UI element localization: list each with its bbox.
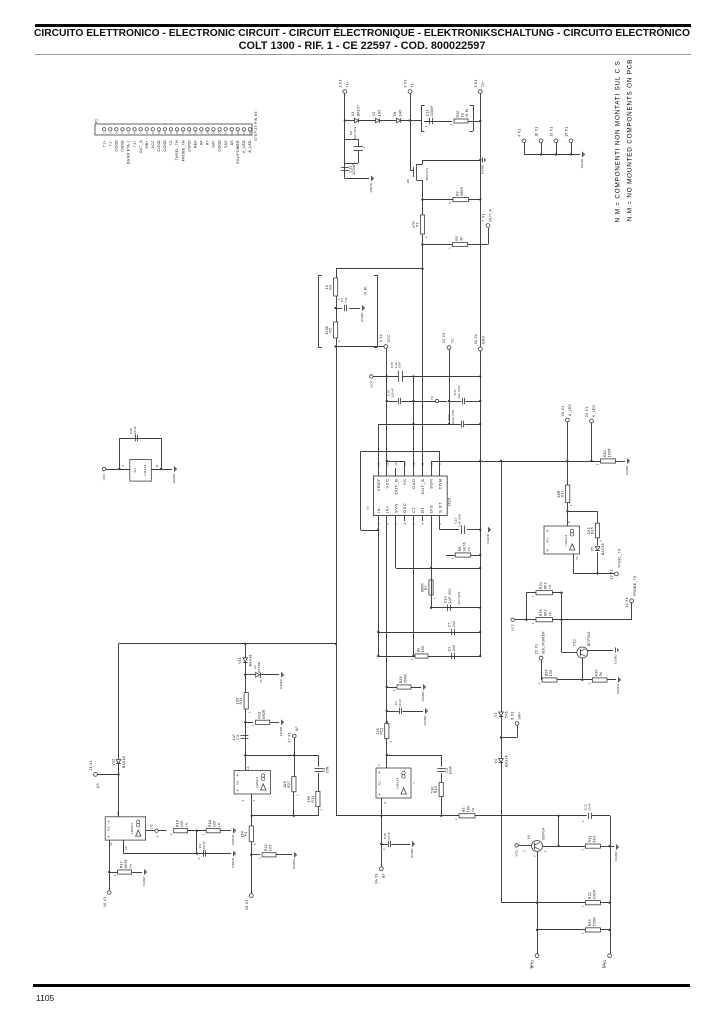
svg-text:BAS16: BAS16 — [601, 543, 605, 555]
svg-text:16K: 16K — [236, 697, 240, 704]
svg-text:V2: V2 — [494, 712, 498, 717]
svg-text:100nF: 100nF — [352, 163, 356, 174]
svg-text:2 X1: 2 X1 — [404, 79, 408, 87]
svg-text:2: 2 — [449, 123, 453, 125]
svg-text:R8: R8 — [458, 546, 462, 551]
svg-text:+: + — [546, 528, 549, 533]
svg-text:CGND: CGND — [115, 140, 119, 152]
svg-text:24: 24 — [243, 131, 246, 135]
svg-text:15: 15 — [386, 462, 389, 466]
svg-text:CGND: CGND — [142, 876, 146, 886]
svg-text:1: 1 — [581, 932, 585, 934]
svg-text:VC: VC — [402, 479, 407, 486]
svg-text:6: 6 — [384, 801, 387, 803]
svg-text:VCC: VCC — [387, 334, 391, 342]
svg-text:CGND: CGND — [279, 679, 283, 689]
svg-text:R12: R12 — [561, 490, 565, 497]
svg-text:PROBE_TH: PROBE_TH — [633, 575, 637, 596]
svg-text:10K: 10K — [180, 820, 184, 827]
svg-text:2: 2 — [383, 848, 386, 850]
svg-text:10K: 10K — [283, 780, 287, 787]
svg-text:2: 2 — [450, 557, 454, 559]
svg-text:11: 11 — [422, 462, 425, 466]
svg-text:P6SVB: P6SVB — [257, 662, 261, 673]
svg-text:3K: 3K — [459, 236, 463, 241]
svg-text:V8: V8 — [406, 179, 410, 183]
svg-text:12: 12 — [110, 842, 113, 846]
svg-text:14: 14 — [182, 131, 185, 135]
svg-text:11: 11 — [164, 131, 167, 134]
svg-text:BCP51A: BCP51A — [587, 631, 591, 646]
svg-text:LM324: LM324 — [396, 777, 400, 788]
svg-text:X1: X1 — [95, 119, 99, 124]
svg-text:2: 2 — [248, 711, 252, 713]
svg-text:1%: 1% — [129, 863, 133, 868]
svg-text:C3: C3 — [236, 735, 240, 740]
svg-text:8K2: 8K2 — [592, 835, 596, 842]
svg-text:V4: V4 — [494, 759, 498, 764]
svg-text:20: 20 — [219, 131, 222, 135]
svg-text:N.M.: N.M. — [465, 108, 469, 117]
svg-text:OUT_B: OUT_B — [393, 479, 398, 495]
svg-text:N1: N1 — [107, 826, 111, 831]
svg-text:25: 25 — [249, 131, 252, 135]
svg-text:AS: AS — [96, 783, 100, 788]
svg-text:8K2: 8K2 — [544, 609, 548, 616]
svg-text:13 X1: 13 X1 — [610, 569, 614, 579]
svg-text:R1A: R1A — [208, 819, 212, 827]
svg-text:1: 1 — [531, 595, 535, 597]
svg-text:OUT_A: OUT_A — [139, 140, 143, 154]
svg-text:6: 6 — [422, 522, 425, 524]
svg-text:K_LED: K_LED — [242, 140, 246, 153]
svg-text:7: 7 — [413, 782, 416, 784]
svg-text:13: 13 — [125, 846, 128, 850]
svg-text:N.M.: N.M. — [363, 286, 367, 295]
svg-text:5V6: 5V6 — [504, 711, 508, 718]
svg-text:100nF: 100nF — [390, 388, 394, 398]
svg-text:1%: 1% — [467, 546, 471, 551]
svg-text:14 X1: 14 X1 — [625, 597, 629, 607]
svg-text:10nF: 10nF — [587, 803, 591, 811]
svg-text:51K: 51K — [431, 786, 435, 793]
svg-text:GND: GND — [482, 335, 486, 344]
svg-text:SAT: SAT — [212, 140, 216, 147]
svg-text:+: + — [546, 548, 549, 553]
svg-text:1uF 50V: 1uF 50V — [457, 385, 461, 398]
svg-text:18: 18 — [206, 131, 209, 135]
svg-text:IN+: IN+ — [385, 505, 390, 513]
svg-text:1uF 50V: 1uF 50V — [353, 126, 357, 139]
svg-text:3 X1: 3 X1 — [474, 79, 478, 87]
svg-text:DC: DC — [150, 824, 154, 829]
svg-text:R27: R27 — [287, 781, 291, 788]
svg-text:R28: R28 — [399, 676, 403, 683]
svg-text:C12: C12 — [425, 109, 429, 116]
svg-text:21 X1: 21 X1 — [89, 760, 93, 770]
svg-text:8K2: 8K2 — [544, 582, 548, 589]
svg-text:LM324: LM324 — [143, 464, 147, 475]
svg-text:14: 14 — [395, 462, 398, 466]
svg-text:1%: 1% — [548, 611, 552, 616]
svg-text:+: + — [236, 788, 239, 793]
svg-text:BAS16: BAS16 — [122, 756, 126, 768]
svg-text:DGND: DGND — [231, 858, 235, 868]
svg-text:22 X1: 22 X1 — [535, 644, 539, 654]
svg-text:2: 2 — [537, 682, 541, 684]
svg-text:1uF 25V: 1uF 25V — [448, 588, 452, 603]
svg-text:CGND: CGND — [421, 691, 425, 701]
svg-text:GND: GND — [411, 479, 416, 489]
svg-text:11 X1: 11 X1 — [474, 334, 478, 344]
svg-text:SGN: SGN — [429, 479, 434, 489]
svg-text:100nF: 100nF — [202, 841, 206, 851]
svg-text:R24: R24 — [539, 582, 543, 589]
svg-text:47R: 47R — [412, 221, 416, 228]
svg-text:T1+: T1+ — [345, 81, 349, 88]
svg-text:9 X1: 9 X1 — [379, 334, 383, 342]
svg-text:100R: 100R — [607, 448, 611, 458]
svg-text:TC: TC — [430, 396, 434, 401]
svg-text:AS: AS — [230, 140, 234, 146]
svg-text:CGND: CGND — [360, 312, 364, 322]
svg-text:P2: P2 — [415, 222, 419, 227]
svg-text:VCC: VCC — [511, 624, 515, 631]
svg-text:1: 1 — [253, 843, 257, 845]
svg-text:1: 1 — [531, 622, 535, 624]
svg-text:T1-: T1- — [411, 81, 415, 87]
svg-text:+: + — [236, 773, 239, 778]
svg-text:R30: R30 — [595, 669, 599, 676]
svg-text:10K: 10K — [466, 805, 470, 812]
svg-text:1uF 50V: 1uF 50V — [457, 514, 461, 527]
svg-text:DGND: DGND — [231, 835, 235, 845]
svg-text:10: 10 — [576, 556, 579, 560]
svg-text:N.M.= NO MOUNTED COMPONENTS ON: N.M.= NO MOUNTED COMPONENTS ON PCB — [627, 59, 634, 221]
svg-text:N1: N1 — [546, 538, 550, 543]
svg-text:10nF: 10nF — [387, 832, 391, 840]
svg-text:A_LED: A_LED — [248, 140, 252, 153]
svg-text:1A5: 1A5 — [399, 109, 403, 116]
svg-text:24 X1: 24 X1 — [585, 407, 589, 417]
svg-text:2: 2 — [337, 340, 341, 342]
svg-text:4: 4 — [404, 522, 407, 524]
svg-text:9K76: 9K76 — [462, 542, 466, 551]
svg-text:150R: 150R — [592, 889, 596, 899]
svg-text:V3: V3 — [372, 112, 376, 117]
svg-text:OUT_A: OUT_A — [489, 208, 493, 221]
svg-text:CGND: CGND — [423, 715, 427, 725]
svg-text:PROBE_TH: PROBE_TH — [181, 140, 185, 161]
svg-text:R25: R25 — [539, 609, 543, 616]
svg-text:CGND: CGND — [616, 684, 620, 694]
svg-text:V11: V11 — [238, 657, 242, 664]
svg-text:N.M.= COMPONENTI NON MONTATI S: N.M.= COMPONENTI NON MONTATI SUL C.S. — [615, 58, 622, 222]
svg-text:R33: R33 — [588, 919, 592, 926]
svg-text:R26: R26 — [545, 669, 549, 676]
svg-text:DGND ETA-1: DGND ETA-1 — [127, 140, 131, 164]
svg-text:16 X1: 16 X1 — [103, 897, 107, 907]
svg-text:18: 18 — [260, 679, 263, 683]
svg-text:12: 12 — [170, 131, 173, 135]
svg-text:12 X1: 12 X1 — [442, 333, 446, 343]
svg-text:V6: V6 — [393, 112, 397, 117]
svg-text:15: 15 — [188, 131, 191, 135]
svg-text:COM: COM — [437, 479, 442, 490]
svg-text:R17: R17 — [120, 861, 124, 868]
svg-text:CGND: CGND — [481, 164, 485, 174]
svg-text:+: + — [378, 792, 381, 797]
svg-text:OUT_A: OUT_A — [420, 479, 425, 495]
svg-text:IN-: IN- — [376, 506, 381, 513]
svg-text:1: 1 — [410, 658, 414, 660]
svg-text:1A5: 1A5 — [378, 109, 382, 116]
svg-text:V10: V10 — [573, 639, 577, 646]
svg-text:DIS: DIS — [429, 505, 434, 513]
svg-text:DGND: DGND — [292, 859, 296, 869]
svg-text:680R: 680R — [460, 186, 464, 196]
svg-text:220nF: 220nF — [430, 105, 434, 116]
svg-text:CGND: CGND — [486, 534, 490, 544]
svg-text:T4+: T4+ — [133, 140, 137, 147]
svg-text:CGND: CGND — [121, 140, 125, 152]
svg-text:3K: 3K — [599, 671, 603, 676]
svg-text:CGND: CGND — [625, 465, 629, 475]
svg-text:R3: R3 — [455, 236, 459, 241]
svg-text:TC: TC — [169, 140, 173, 145]
svg-text:3: 3 — [242, 799, 245, 801]
svg-text:8 X1: 8 X1 — [511, 711, 515, 719]
svg-text:1: 1 — [251, 725, 255, 727]
svg-text:BSP371: BSP371 — [425, 168, 429, 181]
svg-text:25V NPO: 25V NPO — [457, 591, 461, 604]
svg-text:R2: R2 — [456, 191, 460, 196]
svg-text:1 X1: 1 X1 — [338, 79, 342, 87]
svg-text:2: 2 — [388, 740, 392, 742]
svg-text:AF: AF — [295, 726, 299, 731]
svg-text:VCC: VCC — [385, 479, 390, 489]
svg-text:19 X1: 19 X1 — [550, 126, 554, 136]
svg-text:VCC: VCC — [151, 140, 155, 148]
svg-text:RF: RF — [382, 873, 386, 878]
svg-text:AY: AY — [206, 140, 210, 145]
svg-text:14: 14 — [117, 812, 120, 816]
svg-text:CGND: CGND — [580, 159, 584, 169]
svg-text:VCC: VCC — [515, 849, 519, 856]
svg-text:CT: CT — [411, 507, 416, 513]
svg-text:TA+: TA+ — [530, 962, 534, 969]
svg-text:R23: R23 — [434, 786, 438, 793]
svg-text:VCC: VCC — [369, 380, 373, 387]
svg-text:10 X1: 10 X1 — [535, 126, 539, 136]
svg-text:1: 1 — [588, 682, 592, 684]
svg-text:300R: 300R — [403, 674, 407, 684]
svg-text:3: 3 — [523, 850, 526, 852]
svg-text:C14: C14 — [443, 596, 447, 603]
svg-text:15 X1: 15 X1 — [565, 126, 569, 136]
svg-text:C9: C9 — [447, 646, 451, 651]
svg-text:V1: V1 — [351, 112, 355, 117]
svg-text:BAS16: BAS16 — [249, 654, 253, 666]
svg-text:22K: 22K — [376, 727, 380, 734]
svg-text:68R: 68R — [557, 490, 561, 497]
svg-text:3: 3 — [448, 202, 452, 204]
svg-text:1: 1 — [319, 808, 323, 810]
svg-text:+: + — [378, 770, 381, 775]
svg-text:5: 5 — [378, 764, 381, 766]
svg-text:CGND: CGND — [410, 848, 414, 858]
svg-text:2: 2 — [392, 689, 396, 691]
svg-text:DGND: DGND — [172, 473, 176, 483]
svg-text:1: 1 — [569, 504, 573, 506]
svg-text:18 X1: 18 X1 — [245, 900, 249, 910]
svg-text:TC: TC — [451, 338, 455, 343]
svg-text:100nF: 100nF — [133, 426, 137, 436]
svg-text:17: 17 — [200, 131, 203, 135]
svg-text:VREF: VREF — [376, 478, 381, 491]
svg-text:4n7: 4n7 — [232, 734, 236, 741]
svg-text:1: 1 — [596, 463, 600, 465]
svg-text:1K: 1K — [460, 112, 464, 117]
svg-text:C7: C7 — [447, 622, 451, 627]
svg-text:10K: 10K — [421, 645, 425, 652]
svg-text:1: 1 — [599, 540, 603, 542]
svg-text:7 X1: 7 X1 — [482, 213, 486, 221]
svg-text:2: 2 — [198, 857, 201, 859]
svg-text:1: 1 — [424, 236, 428, 238]
svg-text:SW+: SW+ — [145, 140, 149, 149]
svg-text:LM324: LM324 — [564, 534, 568, 545]
svg-text:33N: 33N — [326, 766, 330, 773]
svg-text:1: 1 — [113, 874, 117, 876]
svg-text:THSEL_TH: THSEL_TH — [175, 140, 179, 160]
svg-text:21: 21 — [225, 131, 228, 135]
svg-text:1K: 1K — [325, 284, 329, 289]
svg-text:2: 2 — [454, 818, 458, 820]
svg-text:2: 2 — [253, 799, 256, 801]
svg-text:10K: 10K — [213, 820, 217, 827]
svg-text:T2+: T2+ — [481, 81, 485, 88]
svg-text:R31: R31 — [588, 835, 592, 842]
svg-text:N1: N1 — [133, 468, 137, 473]
svg-text:R15: R15 — [590, 527, 594, 534]
svg-text:R6: R6 — [462, 807, 466, 812]
svg-text:P1: P1 — [244, 831, 248, 836]
svg-text:BA157: BA157 — [357, 105, 361, 117]
svg-text:1K5: 1K5 — [587, 527, 591, 534]
svg-text:680R: 680R — [262, 709, 266, 719]
svg-text:V5: V5 — [590, 547, 594, 552]
svg-text:RT: RT — [420, 507, 425, 513]
svg-text:12: 12 — [413, 462, 416, 466]
svg-text:15K: 15K — [241, 830, 245, 837]
svg-text:1%: 1% — [185, 822, 189, 827]
svg-text:1: 1 — [425, 125, 428, 127]
svg-text:R11: R11 — [311, 796, 315, 803]
svg-text:23: 23 — [237, 131, 240, 135]
svg-text:1: 1 — [448, 247, 452, 249]
svg-text:8: 8 — [568, 521, 571, 523]
svg-text:1nF: 1nF — [344, 297, 348, 303]
svg-text:13: 13 — [176, 131, 179, 135]
svg-text:STEP 25 PIN N6: STEP 25 PIN N6 — [254, 111, 258, 141]
svg-text:22: 22 — [231, 131, 234, 135]
svg-text:1%: 1% — [548, 584, 552, 589]
svg-text:SOL/POWER: SOL/POWER — [542, 631, 546, 654]
svg-text:100K: 100K — [325, 325, 329, 335]
svg-text:10: 10 — [158, 131, 161, 135]
svg-text:R5: R5 — [329, 328, 333, 333]
svg-text:R21: R21 — [380, 727, 384, 734]
svg-text:6K98: 6K98 — [124, 859, 128, 868]
svg-text:AF: AF — [200, 140, 204, 145]
svg-text:V9: V9 — [527, 835, 531, 840]
svg-text:13K: 13K — [549, 669, 553, 676]
svg-text:CGND: CGND — [218, 140, 222, 152]
svg-text:CGND: CGND — [614, 851, 618, 861]
svg-text:3A X1: 3A X1 — [375, 873, 379, 884]
svg-text:1: 1 — [201, 833, 205, 835]
svg-text:10uF 25V: 10uF 25V — [451, 409, 455, 424]
svg-text:1K5: 1K5 — [269, 844, 273, 851]
svg-text:1: 1 — [295, 794, 299, 796]
svg-text:LM324: LM324 — [130, 823, 134, 834]
svg-text:1: 1 — [433, 597, 437, 599]
svg-text:2: 2 — [533, 855, 536, 857]
svg-text:R22: R22 — [588, 892, 592, 899]
svg-text:BSP14: BSP14 — [541, 827, 545, 839]
svg-text:OSC: OSC — [402, 503, 407, 513]
svg-text:1: 1 — [582, 820, 585, 822]
svg-text:CGND: CGND — [369, 183, 373, 193]
svg-text:R18: R18 — [176, 820, 180, 827]
svg-text:K_LED: K_LED — [592, 405, 596, 417]
svg-text:CGND: CGND — [163, 140, 167, 152]
svg-text:SYN: SYN — [393, 503, 398, 513]
svg-text:CGND: CGND — [614, 654, 618, 664]
svg-text:T1-: T1- — [108, 140, 112, 146]
svg-text:R7: R7 — [424, 585, 428, 590]
svg-text:+: + — [107, 834, 110, 839]
svg-text:T1+: T1+ — [102, 140, 106, 147]
svg-text:REF: REF — [193, 140, 197, 148]
svg-text:4: 4 — [122, 465, 125, 467]
svg-text:+: + — [107, 819, 110, 824]
svg-text:1: 1 — [581, 905, 585, 907]
svg-text:17 X1: 17 X1 — [288, 732, 292, 742]
svg-text:2: 2 — [169, 833, 173, 835]
svg-text:1: 1 — [544, 850, 547, 852]
svg-text:2n2: 2n2 — [452, 645, 456, 652]
svg-text:16: 16 — [194, 131, 197, 135]
svg-text:V12: V12 — [111, 759, 115, 766]
svg-text:1A: 1A — [247, 766, 250, 770]
svg-text:TA-: TA- — [602, 962, 606, 968]
svg-text:SAS: SAS — [224, 140, 228, 148]
svg-text:S.ST: S.ST — [437, 502, 442, 513]
svg-text:R4: R4 — [329, 285, 333, 290]
svg-text:2n2: 2n2 — [452, 621, 456, 628]
svg-text:25 X1: 25 X1 — [561, 406, 565, 416]
svg-text:N1: N1 — [236, 780, 240, 785]
svg-text:CGND: CGND — [157, 140, 161, 152]
svg-text:19: 19 — [213, 131, 216, 135]
svg-text:R9: R9 — [417, 647, 421, 652]
svg-text:LM324: LM324 — [255, 777, 259, 788]
svg-text:10nF: 10nF — [398, 699, 402, 707]
svg-text:15K: 15K — [307, 795, 311, 802]
svg-text:150R: 150R — [592, 917, 596, 927]
